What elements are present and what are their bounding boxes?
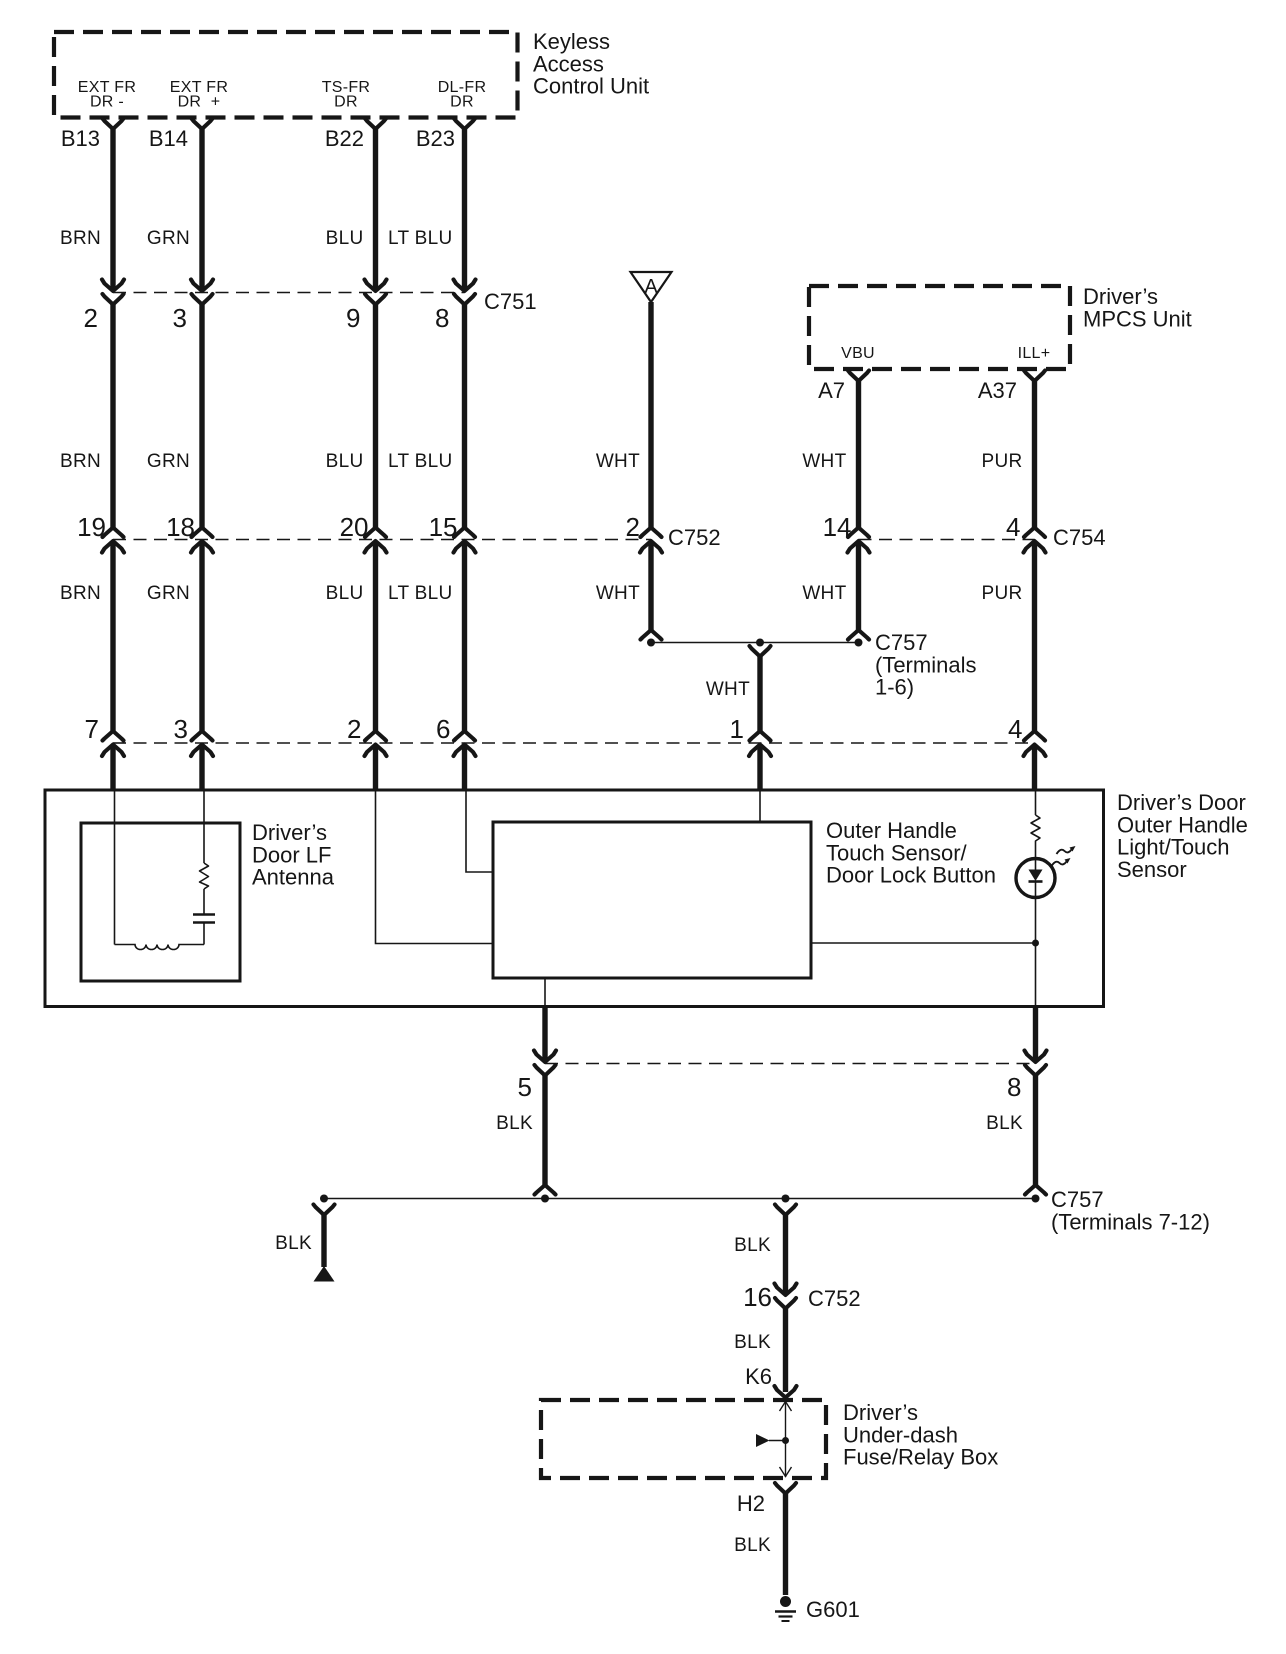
rail dot x=785 [782, 1195, 790, 1203]
driver's MPCS unit box [809, 286, 1070, 369]
svg-text:2: 2 [84, 303, 98, 333]
wire B22/BLU segment C752 to C757 [373, 542, 378, 732]
svg-text:20: 20 [340, 512, 369, 542]
connector C754 pin 14 (pass-through, pointing up) [848, 528, 870, 553]
fuse tap dot [782, 1437, 789, 1444]
svg-text:WHT: WHT [802, 451, 846, 472]
C754 dashed connector line [859, 539, 1035, 541]
svg-text:B14: B14 [149, 126, 188, 151]
wire LED to junction [1035, 897, 1037, 1007]
connector C751 pin 3 (pass-through, pointing down) [191, 280, 213, 305]
svg-text:C751: C751 [484, 289, 537, 314]
capacitor in LF antenna [193, 915, 215, 945]
connector pin B13 (female Y) [103, 119, 124, 130]
wire PUR C757 to sensor box [1032, 745, 1037, 790]
connector pin B14 (female Y) [192, 119, 213, 130]
LED diode symbol [1029, 859, 1043, 897]
connector pin H2 (female Y) [775, 1483, 796, 1494]
svg-text:PUR: PUR [981, 451, 1022, 472]
wire PUR C754 to C757 [1032, 542, 1037, 732]
inductor (antenna coil) [115, 945, 205, 950]
connector C752 pin 15 (pass-through, pointing up) [454, 528, 476, 553]
ground triangle (body ground) [314, 1266, 335, 1282]
svg-text:BLK: BLK [496, 1113, 533, 1134]
connector pin A7 (female Y) [848, 371, 869, 382]
wire B14/GRN segment C751 to C752 [199, 305, 204, 528]
wire B14/GRN segment C752 to C757 [199, 542, 204, 732]
keyless access control unit box [54, 32, 518, 118]
fuse tap stub with arrow [756, 1434, 786, 1447]
driver's door outer handle light/touch sensor outer box [45, 790, 1104, 1007]
svg-text:16: 16 [743, 1282, 772, 1312]
svg-text:A37: A37 [978, 378, 1017, 403]
wire BLK rail to C752 pin 16 [783, 1215, 788, 1294]
connector C757 pin 4 (pass-through, pointing up) [1024, 731, 1046, 756]
wire BLK ground stub [321, 1215, 326, 1267]
wire BLK C752-16 to K6 [783, 1309, 788, 1393]
wire WHT from C752 to C757 junction [648, 542, 653, 631]
connector C752 pin 2 (pass-through, pointing up) [640, 528, 662, 553]
svg-text:BRN: BRN [60, 228, 101, 249]
female Y below junction x=760 [750, 646, 771, 657]
junction dot x=651 [647, 639, 655, 647]
wire BLK C757-8 to ground rail [1033, 1076, 1038, 1186]
svg-text:K6: K6 [745, 1364, 772, 1389]
connector C757 pin 7 (pass-through, pointing up) [102, 731, 124, 756]
connector C752 pin 20 (pass-through, pointing up) [365, 528, 387, 553]
svg-text:LT BLU: LT BLU [388, 228, 452, 249]
wire B14/GRN segment unit to C751 [199, 129, 204, 291]
svg-text:19: 19 [77, 512, 106, 542]
svg-text:BLK: BLK [734, 1332, 771, 1353]
wire BLK C757-5 to ground rail [542, 1076, 547, 1186]
svg-text:BLU: BLU [326, 228, 364, 249]
svg-text:C752: C752 [668, 525, 721, 550]
svg-text:WHT: WHT [596, 451, 640, 472]
C757 dashed connector line [113, 742, 1035, 744]
svg-text:LT BLU: LT BLU [388, 583, 452, 604]
connector C757 pin 6 (pass-through, pointing up) [454, 731, 476, 756]
svg-text:Driver’sDoor LFAntenna: Driver’sDoor LFAntenna [252, 820, 335, 890]
svg-text:B23: B23 [416, 126, 455, 151]
connector C757 pin 2 (pass-through, pointing up) [365, 731, 387, 756]
wire end inverted Y at C757 (x=651) [641, 630, 662, 640]
wire B13/BRN segment C751 to C752 [110, 305, 115, 528]
svg-text:8: 8 [435, 303, 449, 333]
svg-text:14: 14 [823, 512, 852, 542]
wire B23/LT BLU segment C752 to C757 [462, 542, 467, 732]
wire B22/BLU segment unit to C751 [373, 129, 378, 291]
wire pin 1 to touch sensor box top [759, 790, 761, 822]
wire WHT from antenna A to C752 [648, 302, 653, 528]
connector C751 pin 8 (pass-through, pointing down) [454, 280, 476, 305]
C757 7-12 dashed connector line [545, 1063, 1036, 1065]
svg-text:BLK: BLK [734, 1235, 771, 1256]
svg-text:BRN: BRN [60, 451, 101, 472]
wire B23/LT BLU segment C751 to C752 [462, 305, 467, 528]
connector pin B22 (female Y) [365, 119, 386, 130]
connector C751 pin 9 (pass-through, pointing down) [365, 280, 387, 305]
female Y below rail x=324 [314, 1205, 335, 1216]
svg-text:18: 18 [166, 512, 195, 542]
svg-text:3: 3 [174, 714, 188, 744]
wire end inverted Y x=545 [535, 1185, 556, 1195]
C751 dashed connector line [113, 292, 465, 294]
svg-text:GRN: GRN [147, 228, 190, 249]
ground G601 symbol [775, 1596, 796, 1621]
svg-text:8: 8 [1007, 1072, 1021, 1102]
connector pin B23 (female Y) [454, 119, 475, 130]
svg-text:WHT: WHT [706, 679, 750, 700]
svg-text:C754: C754 [1053, 525, 1106, 550]
rail dot x=545 [541, 1195, 549, 1203]
antenna symbol A [631, 272, 672, 302]
svg-text:GRN: GRN [147, 583, 190, 604]
antenna coil feed wire (from pin 7) [114, 790, 116, 945]
connector C751 pin 2 (pass-through, pointing down) [102, 280, 124, 305]
svg-text:BLK: BLK [986, 1113, 1023, 1134]
svg-text:BLU: BLU [326, 451, 364, 472]
wire touch sensor box to LED junction [811, 942, 1036, 944]
wire pin 2 to touch sensor box [376, 790, 494, 944]
wire end inverted Y x=1035 [1025, 1185, 1046, 1195]
driver's under-dash fuse/relay box [541, 1400, 826, 1478]
driver's door LF antenna box [81, 823, 240, 981]
C752 dashed connector line [113, 539, 651, 541]
C757 terminals 1-6 junction rail [651, 642, 859, 644]
svg-text:LT BLU: LT BLU [388, 451, 452, 472]
wire B14/GRN segment C757 to sensor box [199, 745, 204, 790]
connector pin A37 (female Y) [1024, 371, 1045, 382]
svg-text:B22: B22 [325, 126, 364, 151]
svg-text:BRN: BRN [60, 583, 101, 604]
svg-text:ILL+: ILL+ [1018, 345, 1051, 362]
wire BLK pin 8 box to C757 7-12 [1033, 1007, 1038, 1062]
svg-text:C752: C752 [808, 1286, 861, 1311]
connector C752 pin 19 (pass-through, pointing up) [102, 528, 124, 553]
wire B22/BLU segment C757 to sensor box [373, 745, 378, 790]
svg-text:WHT: WHT [802, 583, 846, 604]
antenna drive wire (from pin 3) [203, 790, 205, 863]
K6 arrow into fuse box [775, 1386, 797, 1398]
wire PUR A37 to C754 [1032, 381, 1037, 528]
wire BLK pin 5 box to C757 7-12 [542, 1007, 547, 1062]
wire resistor to capacitor [203, 889, 205, 914]
rail dot x=1035 [1032, 1195, 1040, 1203]
connector C757 pin 3 (pass-through, pointing up) [191, 731, 213, 756]
wire pin 6 to touch sensor box [466, 790, 493, 872]
svg-text:H2: H2 [737, 1491, 765, 1516]
wire B22/BLU segment C751 to C752 [373, 305, 378, 528]
svg-text:6: 6 [436, 714, 450, 744]
wire WHT junction to connector 1 [757, 657, 762, 732]
connector C757 pin 1 (pass-through, pointing up) [749, 731, 771, 756]
LED light emission arrows [1052, 846, 1076, 866]
connector C757 pin 8 (pass-through, pointing down) [1025, 1051, 1047, 1076]
wire B13/BRN segment C752 to C757 [110, 542, 115, 732]
wire B13/BRN segment unit to C751 [110, 129, 115, 291]
wire pin 4 to LED resistor [1035, 790, 1037, 815]
svg-text:2: 2 [626, 512, 640, 542]
connector C752 pin 18 (pass-through, pointing up) [191, 528, 213, 553]
wire B23/LT BLU segment unit to C751 [462, 129, 467, 291]
rail dot x=324 [320, 1195, 328, 1203]
fuse element line with arrows [780, 1401, 792, 1477]
LED circle [1016, 859, 1055, 898]
wire B23/LT BLU segment C757 to sensor box [462, 745, 467, 790]
svg-text:BLK: BLK [275, 1233, 312, 1254]
svg-text:BLK: BLK [734, 1535, 771, 1556]
svg-text:GRN: GRN [147, 451, 190, 472]
wire BLK H2 to G601 [783, 1494, 788, 1596]
wire WHT A7 to C752 [856, 381, 861, 528]
svg-text:G601: G601 [806, 1597, 860, 1622]
svg-text:1: 1 [730, 714, 744, 744]
svg-text:BLU: BLU [326, 583, 364, 604]
svg-text:EXT FRDR +: EXT FRDR + [170, 79, 228, 111]
svg-text:B13: B13 [61, 126, 100, 151]
junction dot LED/touch sensor [1032, 940, 1039, 947]
svg-text:15: 15 [429, 512, 458, 542]
resistor in LF antenna [200, 863, 209, 889]
female Y below rail x=785 [775, 1205, 796, 1216]
svg-text:7: 7 [85, 714, 99, 744]
wire WHT C752 to C757 junction [856, 542, 861, 631]
wire touch sensor box bottom to pin 5 [544, 978, 546, 1007]
connector C757 pin 5 (pass-through, pointing down) [534, 1051, 556, 1076]
outer handle touch sensor / door lock button box [493, 822, 811, 978]
wire end inverted Y at C757 (x=858) [848, 630, 869, 640]
svg-text:WHT: WHT [596, 583, 640, 604]
svg-text:VBU: VBU [841, 345, 875, 362]
connector C752 pin 16 (pass-through, pointing down) [775, 1284, 797, 1309]
svg-text:5: 5 [518, 1072, 532, 1102]
resistor above LED [1031, 815, 1040, 859]
C757 terminals 7-12 ground rail [324, 1198, 1036, 1200]
wire WHT connector 1 to sensor box [757, 745, 762, 790]
svg-text:9: 9 [346, 303, 360, 333]
svg-text:A7: A7 [818, 378, 845, 403]
svg-text:2: 2 [347, 714, 361, 744]
svg-text:4: 4 [1006, 512, 1020, 542]
junction dot x=858 [855, 639, 863, 647]
svg-text:4: 4 [1008, 714, 1022, 744]
wire B13/BRN segment C757 to sensor box [110, 745, 115, 790]
junction dot x=760 [756, 639, 764, 647]
connector C754 pin 4 (pass-through, pointing up) [1024, 528, 1046, 553]
svg-text:PUR: PUR [981, 583, 1022, 604]
svg-text:3: 3 [173, 303, 187, 333]
svg-text:A: A [644, 276, 658, 298]
